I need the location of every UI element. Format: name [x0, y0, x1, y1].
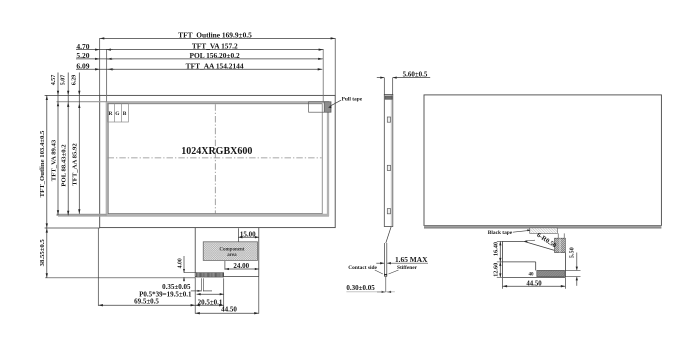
dimension P0.5*39=19.5 [197, 293, 224, 295]
side view bar outline [384, 94, 393, 226]
dimension 1.65 MAX [376, 262, 384, 264]
svg-text:G: G [115, 111, 120, 117]
side view FPC with stiffener [384, 243, 386, 277]
component area hatched box [203, 242, 257, 261]
extension line to FPC bottom [45, 277, 195, 279]
back view FPC step [503, 261, 536, 263]
horizontal center line [108, 157, 322, 159]
dimension 24.00 [224, 261, 226, 270]
svg-text:4.57: 4.57 [51, 75, 57, 86]
svg-text:12.60: 12.60 [492, 263, 499, 277]
back view FPC fold lines [557, 233, 559, 238]
svg-text:TFT_AA 85.92: TFT_AA 85.92 [72, 143, 79, 186]
dimension TFT_VA 157.2 [76, 49, 323, 51]
extension outline top-left horizontal [45, 94, 100, 96]
svg-text:15.00: 15.00 [240, 230, 256, 238]
svg-text:24.00: 24.00 [233, 262, 249, 270]
svg-text:5.50: 5.50 [569, 247, 576, 258]
svg-text:16.40: 16.40 [492, 242, 499, 256]
extension line outline right [334, 38, 336, 95]
svg-text:area: area [227, 253, 237, 258]
vertical center line [214, 104, 216, 214]
dimension TFT_VA 89.43 vertical with 4.57 top gap [57, 73, 59, 215]
back view FPC outline [503, 240, 524, 242]
FPC tab outline front view [194, 228, 196, 277]
side view top dark block [385, 96, 392, 99]
svg-text:0.30±0.05: 0.30±0.05 [346, 284, 375, 292]
dimension TFT_Outline 169.9 [100, 37, 336, 39]
svg-text:Stiffener: Stiffener [397, 265, 418, 271]
back view bond pad hatched block [555, 238, 566, 252]
side view hatch box 1 [387, 117, 390, 122]
svg-text:6-R0.50: 6-R0.50 [535, 232, 558, 250]
svg-text:5.07: 5.07 [60, 75, 66, 86]
dimension 0.30 [377, 291, 385, 293]
svg-text:5.60±0.5: 5.60±0.5 [403, 71, 428, 79]
svg-text:38.55±0.5: 38.55±0.5 [39, 239, 46, 267]
side view FPC bend [386, 227, 391, 244]
svg-text:4.00: 4.00 [177, 258, 183, 268]
front view VA/POL grey border band [107, 102, 328, 215]
dimension 15.00 [237, 228, 239, 241]
side view hatch box 2 [387, 165, 390, 170]
extension VA bottom-left horizontal grey [57, 214, 107, 216]
svg-text:Black tape: Black tape [488, 230, 513, 236]
svg-text:40: 40 [529, 272, 535, 277]
FPC contact strip front view [196, 273, 223, 278]
svg-text:44.50: 44.50 [526, 280, 542, 287]
side view FPC lower tail [385, 277, 387, 292]
svg-text:TFT_VA 157.2: TFT_VA 157.2 [192, 42, 238, 51]
svg-text:TFT_VA 89.43: TFT_VA 89.43 [50, 139, 57, 181]
dimension 44.50 front [195, 312, 259, 314]
svg-text:Component: Component [219, 247, 244, 252]
svg-text:Contact side: Contact side [348, 265, 377, 271]
extension POL bottom thin line [58, 216, 329, 218]
dimension 5.50 right of contact strip [565, 269, 580, 271]
dimension 20.5 [195, 304, 224, 306]
dimension 69.5 [98, 304, 195, 306]
svg-text:6.09: 6.09 [76, 62, 89, 71]
pull tape grey end [324, 102, 331, 112]
pull tape box [309, 102, 331, 112]
dimension POL 88.43 vertical with 5.07 top gap [67, 73, 69, 216]
extension VA top-left horizontal grey [57, 101, 107, 103]
dimension 4.00 contact strip height [184, 272, 197, 274]
front view TFT AA inner rectangle [108, 104, 322, 214]
pull tape label and leader [330, 100, 342, 106]
dimension TFT_AA 85.92 vertical with 6.29 top gap [78, 73, 80, 214]
svg-text:44.50: 44.50 [221, 305, 237, 313]
dimension 38.55 vertical [46, 228, 48, 278]
svg-text:69.5±0.5: 69.5±0.5 [134, 297, 159, 305]
side view inner line [390, 94, 392, 226]
svg-text:Pull tape: Pull tape [342, 96, 363, 102]
extension outline bottom-left horizontal [45, 227, 100, 229]
back view rectangle [424, 95, 661, 226]
extension line VA/POL/AA right above panel [322, 49, 324, 102]
svg-text:B: B [123, 111, 127, 117]
svg-text:1.65 MAX: 1.65 MAX [395, 255, 428, 264]
svg-text:5.20: 5.20 [76, 51, 89, 60]
dimension TFT_AA 154.2144 [76, 68, 322, 70]
side view hatch box 3 [387, 209, 390, 214]
extension line VA/POL/AA left above panel [106, 49, 108, 102]
back view bottom grey band [424, 226, 661, 229]
front view TFT outline rectangle [100, 95, 336, 227]
RGB pixel boxes [108, 103, 129, 122]
svg-text:6.29: 6.29 [71, 75, 77, 86]
svg-text:TFT_Outline 103.4±0.5: TFT_Outline 103.4±0.5 [39, 130, 46, 197]
svg-text:4.70: 4.70 [76, 42, 89, 51]
dimension 16.40 and 12.60 left of FPC [497, 240, 503, 242]
dimension 0.35 pitch [200, 278, 202, 291]
svg-text:20.5±0.1: 20.5±0.1 [198, 298, 223, 306]
svg-text:TFT_Outline 169.9±0.5: TFT_Outline 169.9±0.5 [178, 30, 252, 39]
extension lines bottom dims [97, 228, 99, 306]
extension line outline left top [99, 38, 101, 95]
svg-text:R: R [108, 111, 112, 117]
svg-text:POL 156.20±0.2: POL 156.20±0.2 [189, 51, 240, 60]
dimension 44.50 back view [502, 278, 504, 289]
back view contact strip [537, 270, 565, 276]
dimension TFT_Outline 103.4 vertical [46, 95, 48, 228]
dimension POL 156.20 [76, 58, 323, 60]
svg-text:TFT_AA 154.2144: TFT_AA 154.2144 [186, 61, 244, 70]
svg-text:1024XRGBX600: 1024XRGBX600 [181, 146, 252, 157]
dimension 5.60 side width [383, 78, 385, 95]
black tape hatched strip [530, 228, 558, 234]
svg-text:POL 88.43±0.2: POL 88.43±0.2 [61, 144, 68, 187]
